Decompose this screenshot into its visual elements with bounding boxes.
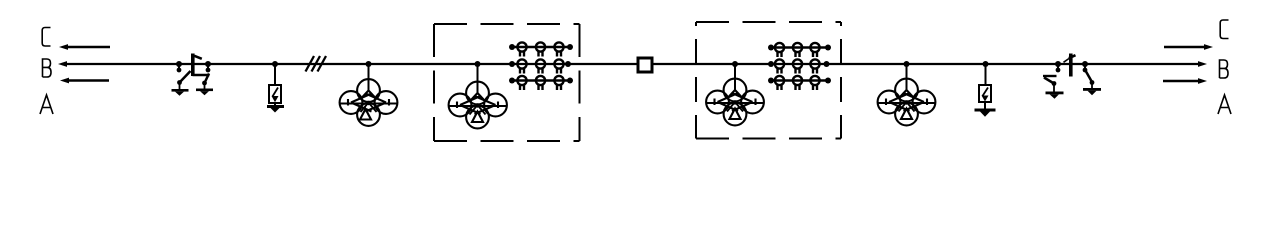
wire lamp row3 grid2: [771, 79, 828, 81]
node arrester 2: [983, 61, 989, 67]
arrow phase B left end: [58, 61, 67, 67]
ground left-L: [172, 89, 189, 96]
node transformer T1: [366, 61, 372, 67]
arrow phase B right end: [1198, 61, 1207, 67]
label A left: [40, 95, 53, 114]
lamp E11: [517, 42, 526, 56]
node lamp row1 left grid2: [768, 45, 774, 51]
lamp E12: [536, 42, 545, 56]
disconnector blade bar right switch: [1069, 54, 1073, 77]
label A right: [1218, 95, 1231, 114]
lamp E23: [554, 59, 563, 73]
transformer T4: [878, 79, 936, 126]
lamp F12: [793, 43, 802, 57]
label C left: [42, 28, 50, 47]
ground arrester 1: [267, 105, 284, 113]
node lamp row1 left grid1: [509, 44, 515, 50]
ground right-L: [1046, 92, 1064, 99]
arrow phase C left: [59, 44, 110, 50]
wire arrester 2 drop: [985, 64, 987, 85]
wire bottom bar left switch: [193, 74, 210, 76]
wire main bus B phase: [62, 63, 1201, 65]
wire arrester 1 drop: [274, 64, 276, 85]
node arrester 1: [272, 61, 278, 67]
arrow phase A right: [1163, 78, 1207, 84]
node lamp row1 right grid1: [567, 44, 573, 50]
ground arrester 2: [975, 109, 996, 117]
node lamp row3 right grid1: [567, 78, 573, 84]
disconnector cap right switch: [1064, 55, 1076, 62]
node transformer T2: [475, 61, 481, 67]
transformer T3: [706, 79, 764, 126]
lamp E13: [554, 42, 563, 56]
surge arrester F1: [269, 85, 281, 106]
lamp F33: [810, 76, 819, 90]
lamp F22: [793, 59, 802, 73]
lamp E22: [536, 59, 545, 73]
dashed enclosure 2: [696, 22, 841, 139]
node lamp row2 left grid2: [768, 61, 774, 67]
earthing switch contact right-L: [1056, 64, 1061, 72]
label B left: [43, 59, 52, 77]
node lamp row3 left grid1: [509, 78, 515, 84]
lamp E33: [554, 76, 563, 90]
node switch left L: [176, 61, 182, 67]
label C right: [1220, 20, 1228, 39]
fuse box on main line: [638, 58, 652, 72]
disconnector blade bar left switch: [191, 54, 195, 77]
node transformer T4: [904, 61, 910, 67]
wire T1 feed: [368, 64, 370, 91]
node switch right R: [1082, 61, 1088, 67]
label B right: [1220, 60, 1229, 78]
arrow phase C right: [1164, 44, 1213, 50]
wire T3 feed: [734, 64, 736, 90]
earthing switch blade left-R: [202, 74, 209, 89]
earthing switch blade right-L: [1044, 78, 1056, 92]
earthing switch contact left-L: [177, 64, 182, 72]
wire lamp row1 grid1: [512, 46, 570, 48]
wire T4 feed: [906, 64, 908, 90]
earthing switch contact right-R: [1083, 64, 1088, 72]
lamp F32: [793, 76, 802, 90]
ground left-R: [196, 89, 213, 96]
node lamp row2 right grid2: [824, 61, 830, 67]
lamp F11: [775, 43, 784, 57]
line crossing slashes (3 conductors): [306, 56, 327, 72]
ground right-R: [1083, 88, 1101, 95]
lamp E21: [517, 59, 526, 73]
disconnector cap left switch: [194, 56, 202, 59]
wire bottom bar right switch: [1043, 75, 1057, 77]
node lamp row3 right grid2: [825, 78, 831, 84]
earthing switch blade right-R: [1086, 72, 1094, 89]
earthing switch contact left-R: [206, 64, 211, 72]
lamp F31: [775, 76, 784, 90]
node switch right L: [1055, 61, 1061, 67]
arrow phase A left: [60, 78, 109, 84]
wire lamp row1 grid2: [771, 46, 828, 48]
surge arrester F2: [979, 85, 991, 109]
wire lamp row3 grid1: [512, 79, 570, 81]
wire T2 feed: [477, 64, 479, 93]
node lamp row1 right grid2: [825, 45, 831, 51]
node lamp row2 right grid1: [565, 61, 571, 67]
node switch left R: [205, 61, 211, 67]
lamp F13: [810, 43, 819, 57]
lamp E31: [517, 76, 526, 90]
earthing switch blade left-L: [177, 71, 190, 89]
lamp F21: [775, 59, 784, 73]
lamp E32: [536, 76, 545, 90]
node lamp row3 left grid2: [768, 78, 774, 84]
transformer T1: [340, 79, 398, 126]
node transformer T3: [732, 61, 738, 67]
node lamp row2 left grid1: [509, 61, 515, 67]
transformer T2: [449, 82, 507, 129]
lamp F23: [810, 59, 819, 73]
dashed enclosure 1: [434, 24, 580, 141]
